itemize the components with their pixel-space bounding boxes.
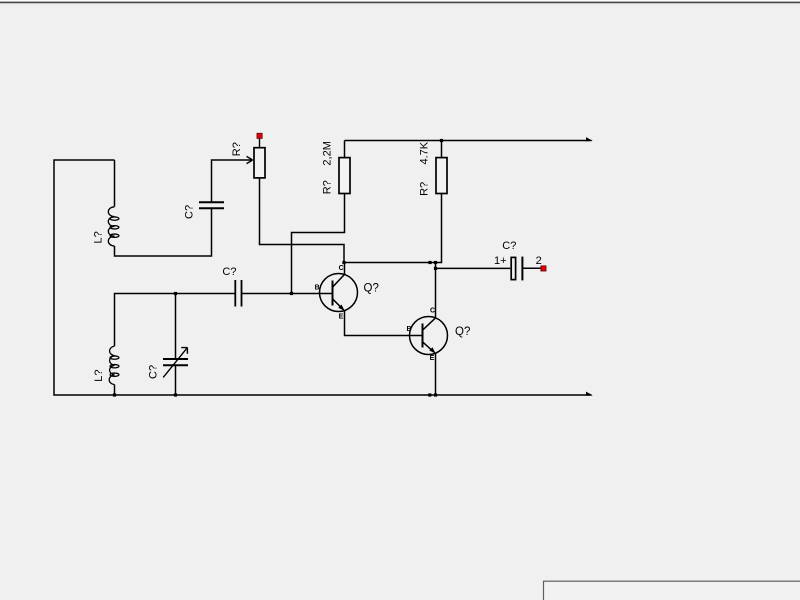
junction at C3 bottom [174,393,177,396]
wire Q2 collector node to C4 [436,267,511,269]
resistor R3 [436,158,447,194]
ui bottom-right panel [544,581,800,600]
junction on collector rail right [434,261,437,264]
svg-text:Q?: Q? [455,326,470,338]
junction at C3 top branch [174,292,177,295]
wire C1 top to potentiometer arrow [212,160,253,202]
junction at L2 bottom [113,393,116,396]
junction on ground rail left of Q2 [428,393,431,396]
svg-text:C?: C? [502,240,516,252]
transistor Q2 [410,317,448,355]
junction at Q2 emitter [434,393,437,396]
arrowhead end of bottom rail [586,392,593,396]
inductor L2 [109,346,119,385]
svg-text:L?: L? [93,231,105,243]
wire top supply rail [345,140,592,142]
svg-text:R?: R? [231,142,243,156]
capacitor C1 [199,202,224,208]
wire Q2 emitter to ground rail [435,353,437,395]
junction at Q1 collector node [342,261,345,264]
polarized capacitor C4 [511,257,522,281]
svg-text:C: C [430,308,435,315]
svg-text:C?: C? [184,205,196,219]
wire C3 bottom lead [175,365,177,395]
capacitor C2 [235,280,241,307]
svg-text:C: C [339,265,344,272]
wire C3 branch from base net [175,294,177,360]
svg-text:2: 2 [536,255,542,267]
variable capacitor C3 [163,359,188,365]
svg-text:2,2M: 2,2M [321,141,333,165]
wire L1 top lead [114,160,116,207]
wire R2 top lead [344,141,346,158]
svg-text:L?: L? [93,370,105,382]
wire C2 left plate to L2 top [115,294,236,347]
net port red square at C4 output [541,266,546,271]
ui top window edge [0,0,800,4]
svg-text:1+: 1+ [494,255,507,267]
junction on collector rail left [428,261,431,264]
svg-text:4.7K: 4.7K [419,141,431,164]
wire collector node to R3 bottom [344,194,442,263]
arrowhead end of top supply rail [586,137,593,141]
potentiometer R1 [247,139,265,178]
junction at R3 top [440,139,443,142]
resistor R2 [339,158,350,194]
wire Q1 emitter to Q2 base [345,311,423,336]
wire C4 output lead [522,267,540,269]
inductor L1 [108,207,119,246]
wire L1 bottom to C1 bottom [115,208,212,256]
junction at Q1 base node [290,292,293,295]
svg-text:R?: R? [419,182,431,196]
svg-text:C?: C? [222,266,236,278]
svg-text:B: B [407,326,412,333]
wire C2 right plate to Q1 base [242,293,333,295]
wire potentiometer bottom to Q1 collector node [260,179,345,263]
wire Q2 collector lead [435,263,437,318]
junction at C4 branch [434,267,437,270]
svg-text:C?: C? [147,365,159,379]
svg-text:B: B [315,285,320,292]
svg-text:R?: R? [321,180,333,194]
wire R3 top lead [441,141,443,158]
wire R2 bottom to Q1 base node [292,194,345,294]
wire left rail and bottom rail [54,160,592,395]
svg-text:E: E [339,314,344,321]
net port red square at R1 top [257,133,262,138]
transistor Q1 [320,263,358,312]
svg-text:Q?: Q? [364,282,379,294]
wire L2 bottom lead [114,385,116,395]
svg-text:E: E [430,355,435,362]
